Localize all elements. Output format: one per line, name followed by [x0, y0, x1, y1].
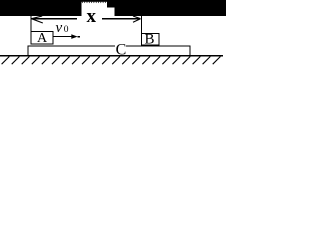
- hatched notch band with teeth: [82, 0, 108, 2]
- svg-text:B: B: [144, 32, 154, 48]
- ceiling bar right black segment: [115, 0, 227, 16]
- dimension line left segment: [32, 18, 78, 19]
- left arrowhead: [32, 16, 43, 23]
- block B box: [142, 34, 160, 46]
- gap in plank top edge for label C: [115, 45, 126, 48]
- svg-text:A: A: [37, 31, 48, 46]
- svg-text:0: 0: [64, 25, 69, 35]
- plank C outline: [28, 46, 190, 56]
- svg-text:x: x: [87, 6, 97, 27]
- dimension line right segment: [102, 18, 141, 19]
- left extension line: [31, 14, 32, 31]
- velocity arrow v0: [53, 36, 72, 37]
- background: [0, 0, 226, 70]
- block A box: [31, 32, 53, 45]
- ceiling bar left black segment: [0, 0, 82, 16]
- ground hatching: [2, 57, 221, 65]
- right arrowhead: [133, 16, 141, 22]
- right extension line: [141, 15, 142, 33]
- svg-text:v: v: [56, 20, 63, 36]
- ground line: [0, 55, 223, 57]
- ceiling bar shallow segment right of notch: [107, 0, 115, 8]
